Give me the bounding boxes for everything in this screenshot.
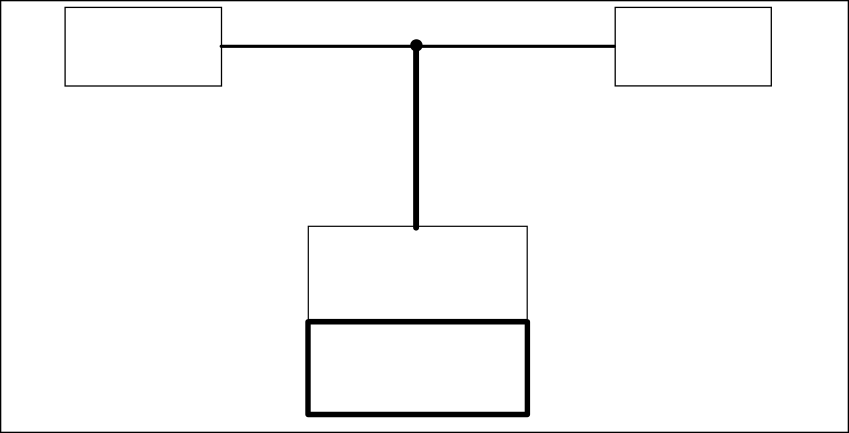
block U4 (thick bottom box) <box>308 322 527 415</box>
block U2 (top-right box) <box>615 7 771 86</box>
block U1 (top-left box) <box>65 7 221 86</box>
block U3 (thin middle box) <box>308 226 527 319</box>
node (junction dot) <box>410 39 422 51</box>
wire (horizontal net between U1 and U2) <box>221 45 614 48</box>
wire (vertical drop from junction to U3) <box>413 45 419 227</box>
